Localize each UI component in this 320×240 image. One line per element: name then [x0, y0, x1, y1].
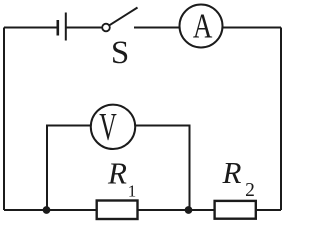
- wire top-left to battery: [4, 27, 57, 29]
- battery positive plate: [65, 13, 67, 41]
- wire node B to R1: [138, 209, 189, 211]
- svg-text:A: A: [193, 7, 213, 46]
- switch S pivot circle: [102, 24, 110, 32]
- svg-text:V: V: [99, 106, 117, 149]
- wire ammeter to top-right corner: [223, 27, 282, 29]
- wire R1 to node A: [47, 209, 96, 211]
- wire battery to switch: [66, 27, 103, 29]
- resistor R2 box: [215, 201, 256, 219]
- wire R2 to node B: [189, 209, 214, 211]
- svg-text:1: 1: [128, 181, 137, 200]
- wire node A to bottom-left corner: [4, 209, 47, 211]
- svg-text:2: 2: [245, 180, 255, 201]
- wire switch contact to ammeter: [134, 27, 180, 29]
- wire voltmeter right leg: [136, 126, 190, 211]
- svg-text:R: R: [107, 155, 127, 190]
- node A junction dot: [43, 206, 51, 214]
- svg-text:S: S: [111, 35, 129, 71]
- svg-text:R: R: [222, 155, 242, 190]
- voltmeter V circle: [91, 105, 135, 149]
- wire right side: [280, 28, 282, 211]
- switch S blade: [109, 8, 137, 26]
- node B junction dot: [185, 206, 193, 214]
- wire bottom-right to R2: [257, 209, 282, 211]
- wire voltmeter left leg: [47, 126, 91, 211]
- ammeter A circle: [180, 5, 223, 48]
- resistor R1 box: [97, 201, 138, 220]
- wire left side: [3, 28, 5, 211]
- battery negative plate: [56, 20, 59, 36]
